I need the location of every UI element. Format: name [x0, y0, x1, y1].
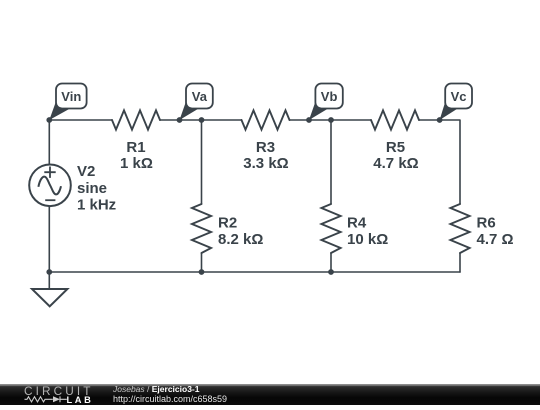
resistor R5 zigzag — [371, 110, 419, 129]
logo resistor-diode line — [25, 396, 67, 402]
resistor R3 zigzag — [242, 110, 290, 129]
voltage source V2 sine symbol — [38, 177, 61, 195]
svg-text:V2: V2 — [77, 163, 95, 180]
node flag Vc box — [445, 84, 472, 109]
svg-text:sine: sine — [77, 180, 107, 197]
logo diode triangle — [53, 396, 60, 402]
wire: Vin node down to V2 + terminal — [48, 120, 50, 164]
wire: R2 to ground rail — [201, 253, 203, 272]
svg-text:R5: R5 — [386, 139, 405, 156]
resistor R6 zigzag — [450, 204, 469, 253]
CircuitLab logo — [0, 384, 100, 405]
node flag Va box — [186, 84, 213, 109]
wire: Va node down to R2 — [201, 120, 203, 204]
voltage source V2 circle — [29, 165, 71, 207]
svg-text:R4: R4 — [347, 215, 367, 232]
node flag Vc tail — [440, 100, 459, 120]
wire: R4 to ground rail — [330, 253, 332, 272]
resistor R4 zigzag — [321, 204, 340, 253]
svg-text:1 kΩ: 1 kΩ — [120, 155, 153, 172]
junction dot node Va anchor — [177, 117, 183, 123]
svg-text:R3: R3 — [256, 139, 275, 156]
svg-text:R1: R1 — [126, 139, 145, 156]
svg-text:R2: R2 — [218, 215, 237, 232]
svg-text:10 kΩ: 10 kΩ — [347, 231, 388, 248]
wire top: Vin node to R1 — [49, 119, 112, 121]
junction dot ground rail / R2 — [199, 269, 205, 275]
junction dot node Vb anchor — [306, 117, 312, 123]
footer url line — [113, 395, 227, 405]
voltage source V2 plus sign — [44, 167, 55, 178]
wire bottom ground rail — [49, 271, 460, 273]
junction dot ground rail / V2 — [46, 269, 52, 275]
junction dot node Vin — [46, 117, 52, 123]
node flag Va tail — [180, 100, 200, 120]
footer bar — [0, 384, 540, 405]
resistor R2 zigzag — [192, 204, 211, 253]
junction dot Va / R2 — [199, 117, 205, 123]
ground symbol — [32, 289, 67, 306]
svg-text:4.7 Ω: 4.7 Ω — [477, 231, 514, 248]
svg-text:1 kHz: 1 kHz — [77, 197, 116, 214]
wire: ground rail stub to ground symbol — [48, 272, 50, 289]
svg-text:Vc: Vc — [451, 89, 467, 104]
svg-text:Va: Va — [192, 89, 208, 104]
wire top: R3 to R5 (node Vb) — [290, 119, 372, 121]
node flag Vin box — [56, 84, 87, 109]
junction dot Vb / R4 — [328, 117, 334, 123]
svg-text:LAB: LAB — [67, 395, 94, 405]
wire: Vb node down to R4 — [330, 120, 332, 204]
node flag Vin tail — [49, 100, 71, 120]
svg-text:8.2 kΩ: 8.2 kΩ — [218, 231, 263, 248]
wire top: R5 to corner, down to R6 (node Vc) — [419, 120, 460, 204]
wire: R6 to ground rail — [459, 253, 461, 272]
junction dot ground rail / R4 — [328, 269, 334, 275]
wire top: R1 to R3 (node Va) — [160, 119, 242, 121]
svg-text:3.3 kΩ: 3.3 kΩ — [243, 155, 288, 172]
resistor R1 zigzag — [112, 110, 160, 129]
svg-text:4.7 kΩ: 4.7 kΩ — [373, 155, 418, 172]
junction dot node Vc anchor — [437, 117, 443, 123]
svg-text:R6: R6 — [477, 215, 496, 232]
node flag Vb tail — [309, 100, 329, 120]
wire: V2 - terminal down to ground rail — [48, 207, 50, 273]
node flag Vb box — [315, 84, 342, 109]
voltage source V2 minus sign — [45, 199, 55, 201]
footer credit line — [113, 385, 200, 395]
svg-text:Vin: Vin — [61, 89, 81, 104]
svg-text:Vb: Vb — [321, 89, 338, 104]
